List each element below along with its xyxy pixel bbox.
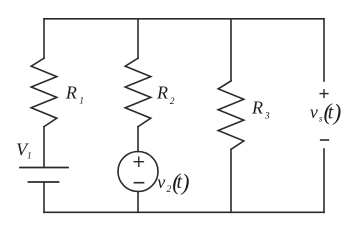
wire R2 to source v2: [137, 127, 139, 152]
resistor R3: [218, 81, 244, 149]
svg-text:1: 1: [79, 96, 84, 106]
label R3: [251, 97, 270, 121]
battery V1 plate long: [20, 167, 68, 169]
label R2: [156, 83, 175, 107]
svg-text:s: s: [319, 115, 323, 125]
battery V1 plate short: [29, 181, 59, 183]
svg-text:2: 2: [170, 97, 175, 107]
wire branch2 top lead: [137, 19, 139, 58]
wire R1 to battery: [43, 127, 45, 168]
resistor R1: [31, 58, 57, 127]
wire v2 to bottom rail: [137, 192, 139, 213]
label V1: [16, 140, 32, 162]
svg-text:2: 2: [167, 185, 172, 195]
wire branch3 top lead: [230, 19, 232, 81]
wire top rail: [44, 18, 324, 20]
wire branch1 top lead: [43, 19, 45, 58]
svg-text:R: R: [156, 83, 168, 103]
wire R3 to bottom rail: [230, 149, 232, 212]
source v2 circle: [118, 152, 158, 192]
wire branch4 bottom terminal lead: [323, 149, 325, 212]
svg-text:3: 3: [264, 112, 270, 122]
svg-text:): ): [332, 100, 342, 125]
terminal minus sign: [321, 139, 329, 141]
wire bottom rail: [44, 211, 324, 213]
wire battery to bottom rail: [43, 182, 45, 212]
source v2 plus: [134, 157, 143, 166]
label v2(t): [157, 170, 189, 195]
svg-text:v: v: [310, 102, 318, 122]
svg-text:R: R: [251, 97, 263, 117]
svg-text:): ): [180, 170, 190, 195]
label vs(t): [310, 100, 341, 126]
svg-text:R: R: [65, 83, 77, 103]
source v2 minus: [134, 182, 143, 184]
svg-text:1: 1: [27, 152, 32, 162]
label R1: [65, 83, 84, 107]
resistor R2: [125, 58, 151, 127]
svg-text:v: v: [157, 172, 165, 192]
terminal plus sign: [320, 90, 328, 98]
wire branch4 top terminal lead: [323, 19, 325, 81]
